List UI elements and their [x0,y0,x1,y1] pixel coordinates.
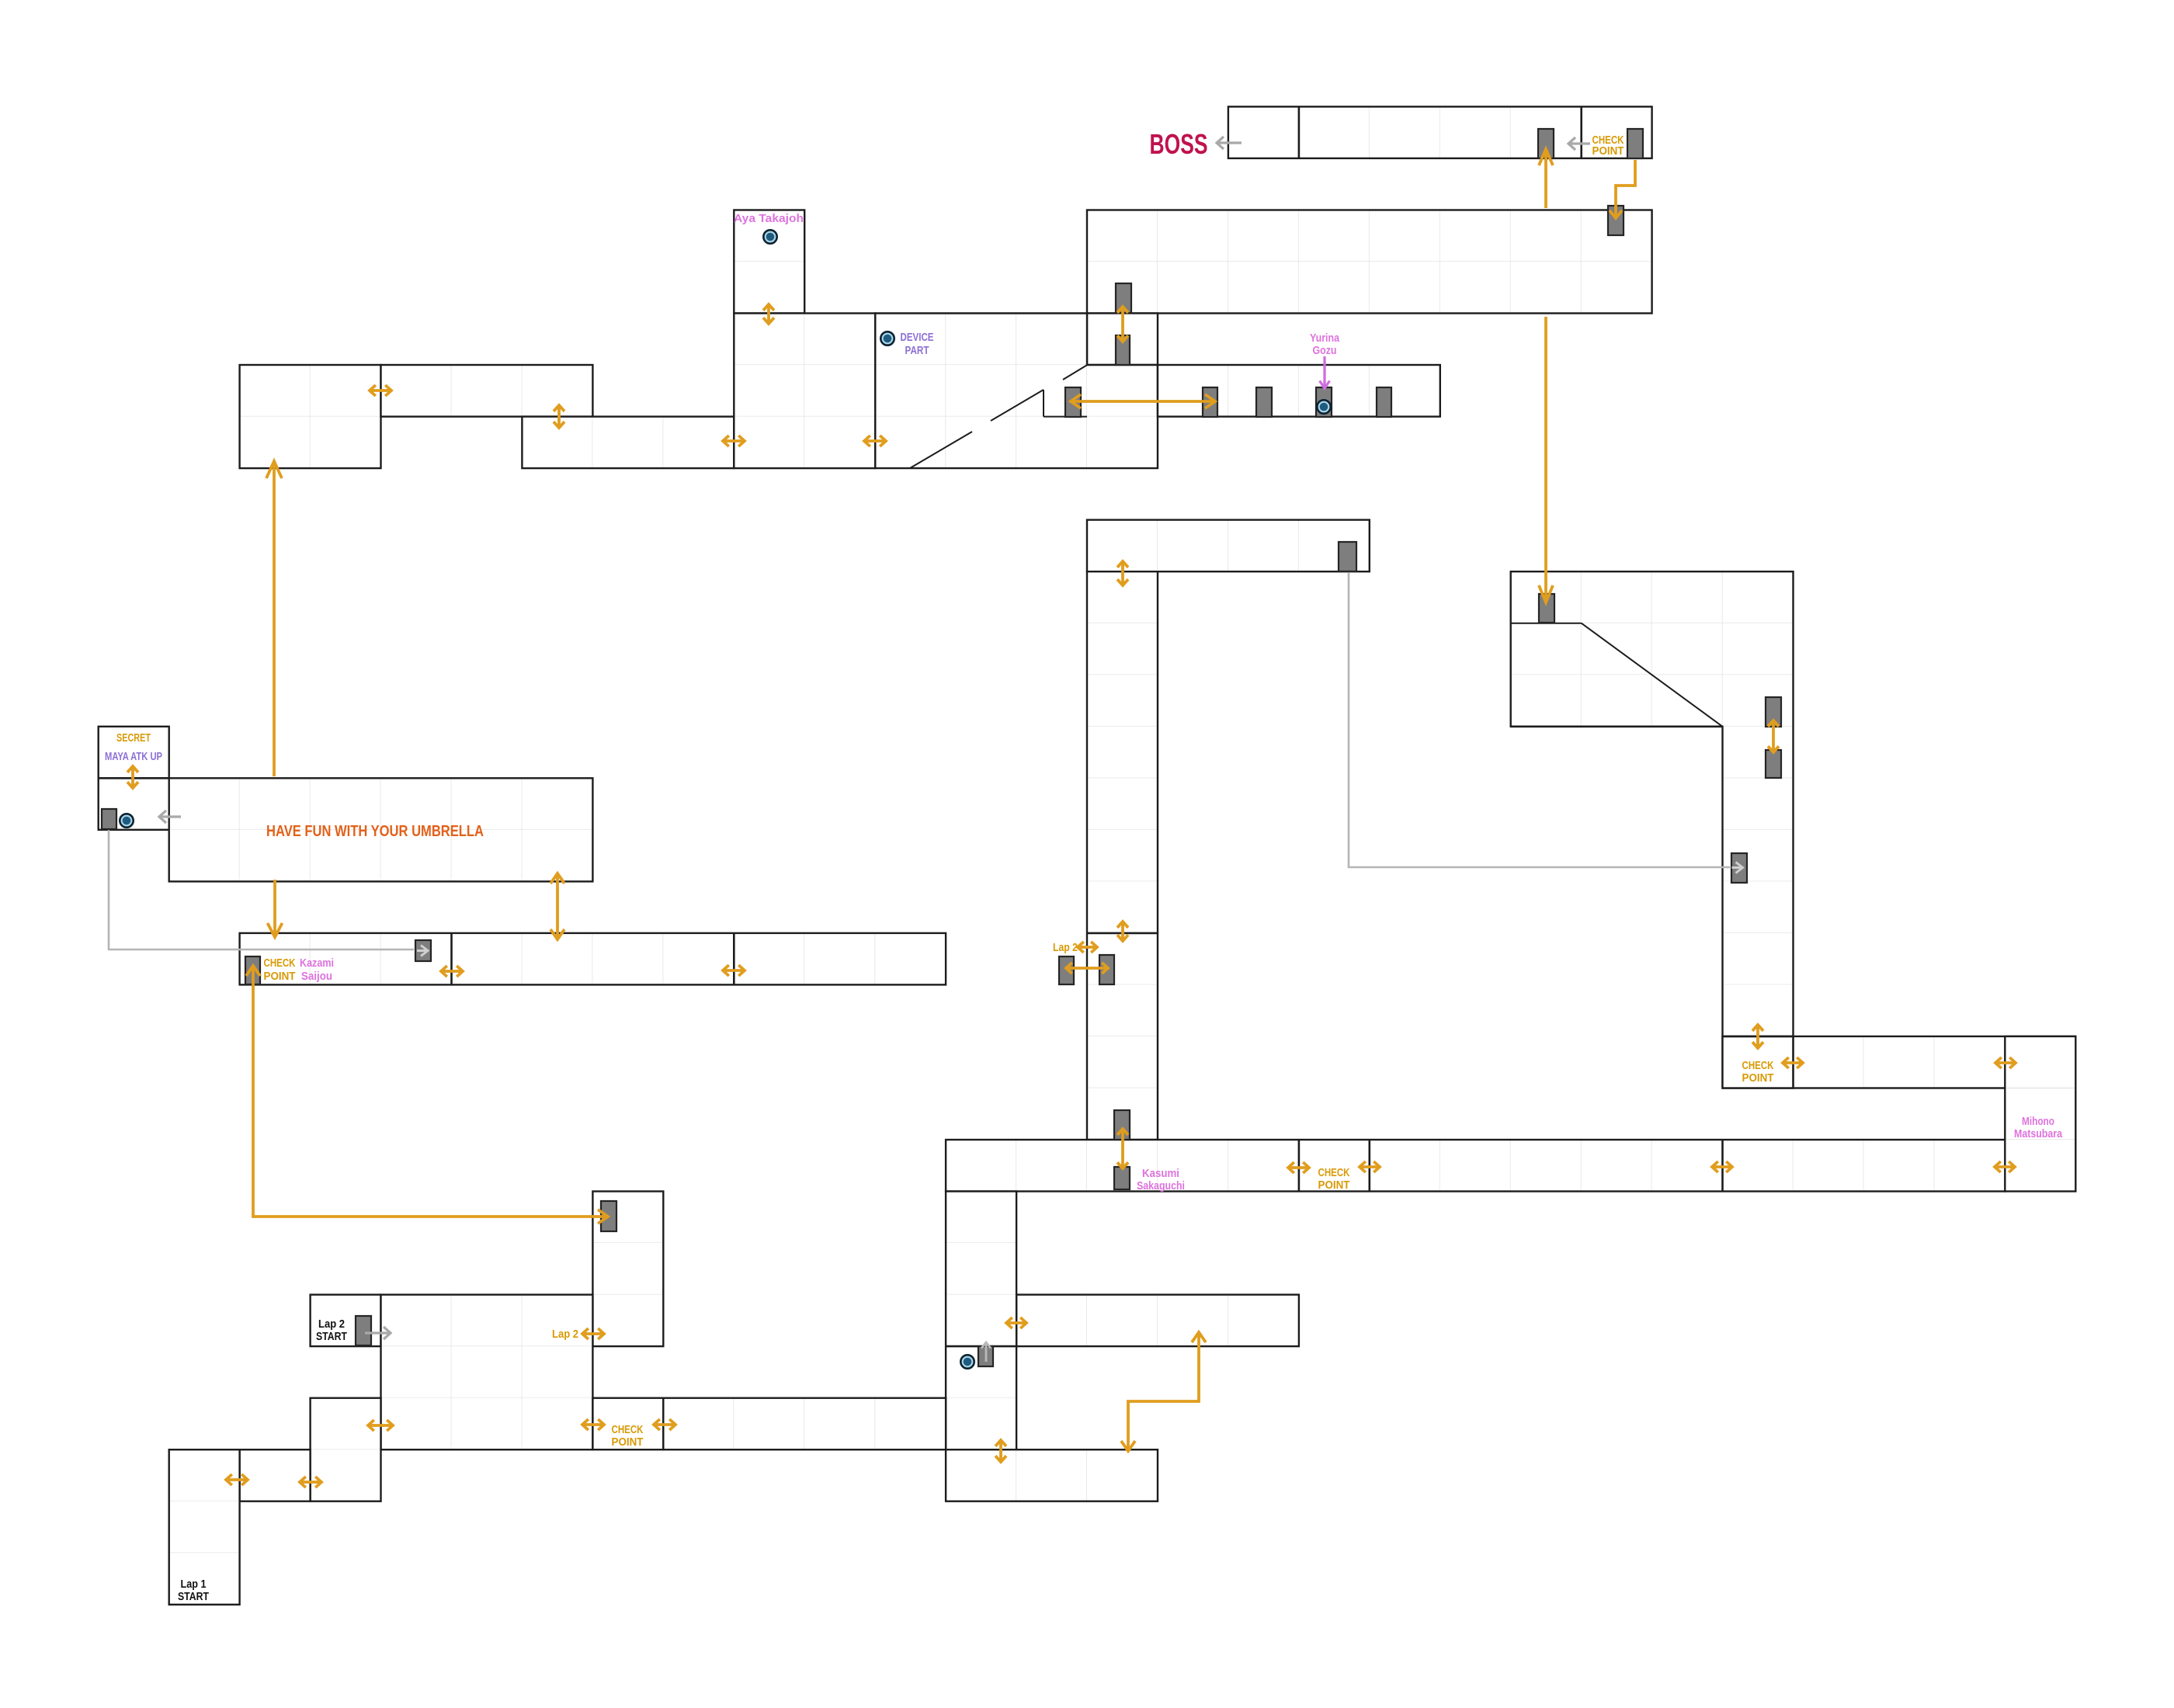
svg-text:START: START [178,1591,209,1603]
svg-text:POINT: POINT [1742,1072,1774,1085]
arrow gray exit boss [1217,137,1242,149]
room Mihono column [2005,1036,2075,1192]
room have-fun hall [169,778,593,881]
arrow two-way west C11 [864,436,886,446]
arrow magenta Yurina label [1320,356,1330,388]
door corridor16 east end [1059,956,1074,984]
room Lap1 column [169,1449,240,1605]
arrow two-way landing doors [1117,307,1128,342]
room checkpoint cell bottom-left [592,1398,663,1450]
wall tower C14 floor [1087,932,1158,935]
svg-text:BOSS: BOSS [1150,128,1208,160]
room west 2x2 [240,365,381,468]
door upper-hall southwest [1116,283,1131,313]
svg-text:POINT: POINT [612,1436,644,1449]
svg-text:Lap 2: Lap 2 [318,1318,345,1331]
room corridor row25 [663,1398,946,1450]
room big 3x3 bottom-left [381,1295,593,1450]
room tower C14 [1087,571,1158,1140]
door tower C23 upper [1766,697,1781,727]
arrow two-way bottom C8 [654,1419,675,1430]
wall corridorA divider C24 [1792,1036,1794,1088]
arrow two-way corridorA C24 [1783,1057,1803,1068]
wall corridorB divider C17 [1298,1140,1301,1192]
arrow two-way tower C14 floor [1117,922,1128,941]
item secret room [120,814,133,827]
room staircase-east with tower and checkpoint cell [1511,571,1794,1088]
door tower C23 gray-arrow [1731,853,1747,883]
room boss-row (top right) [1228,106,1652,158]
stairs east diagonal [1582,623,1723,727]
route gray doorI-to-doorJ [1349,571,1730,867]
arrow two-way tower C12 to hall [1006,1317,1026,1328]
arrow two-way bottom C7 [582,1419,604,1430]
arrow two-way corridor16 C5 [441,966,463,977]
stairs east ledge [1511,623,1582,624]
svg-text:START: START [316,1331,347,1343]
wall boss-row divider [1298,106,1301,158]
room secret column [99,727,169,830]
door tower C23 middle [1766,750,1781,778]
stairs west middle diagonal [991,390,1044,421]
room Yurina hallway [1158,365,1440,417]
svg-text:Kazami: Kazami [300,957,334,970]
svg-text:Gozu: Gozu [1313,345,1337,357]
arrow two-way corridor16 Lap2 [1078,942,1097,953]
room mid hall row23 [1016,1295,1299,1347]
door Yurina 3 [1316,387,1332,417]
wall secret room divider [99,777,169,779]
arrow two-way west hall down [554,405,564,428]
svg-text:Mihono: Mihono [2022,1116,2054,1128]
svg-text:Matsubara: Matsubara [2014,1128,2063,1140]
arrow two-way corridorB C18 [1360,1161,1380,1172]
room tower C7 [592,1192,663,1347]
svg-text:CHECK: CHECK [1742,1060,1774,1072]
open boundary corridorA to Mihono [2006,1086,2074,1090]
room corridor row16 (checkpoint Kazami) [240,933,946,985]
wall corridorB divider C23 [1721,1140,1724,1192]
room corridor row20 (Kasumi) [946,1140,2005,1192]
arrow two-way tower C14 bottom doors [1117,1129,1128,1168]
door upper-hall northeast [1608,206,1624,235]
arrow two-way secret [127,766,138,788]
svg-text:Lap 2: Lap 2 [1053,942,1078,954]
svg-text:Lap 2: Lap 2 [552,1328,578,1341]
arrow two-way tower C23 doors [1768,720,1779,752]
arrow two-way west C4 [370,385,391,396]
arrow one-way down have-fun to corridor [268,880,283,937]
arrow one-way down to stairs-east door [1539,317,1553,602]
door tower C14 mid [1099,955,1114,984]
door stairs-west landing [1065,387,1081,417]
arrow one-way up to boss door [1539,149,1553,208]
arrow gray inside door J [1732,863,1743,873]
arrow gray tower C12 door up [981,1342,991,1362]
door tower C7 top [601,1201,616,1231]
svg-text:Yurina: Yurina [1310,332,1340,345]
door boss-row [1538,129,1554,158]
door Lap2-start [356,1316,371,1345]
room west hall [381,365,593,417]
room tower C12 [946,1192,1016,1450]
svg-text:POINT: POINT [264,970,296,983]
arrow elbow corridor16 to tower C7 door [246,966,608,1224]
arrow two-way west C9 [723,436,745,446]
item device part [880,332,894,345]
arrow two-way corridor16 C9 [723,965,745,976]
svg-text:POINT: POINT [1318,1179,1350,1192]
stairs west landing floor [1044,416,1087,418]
svg-text:SECRET: SECRET [116,732,151,745]
arrow one-way up have-fun to west room [266,461,282,776]
door corridor row20 [1114,1167,1130,1189]
svg-text:Sakaguchi: Sakaguchi [1137,1180,1185,1192]
arrow two-way tower C12 bottom [995,1440,1006,1462]
arrow two-way bottom C2 [226,1474,248,1485]
arrow two-way corridorA to Mihono [1995,1057,2016,1068]
item Yurina door [1317,400,1330,413]
door stairs-east ledge [1539,594,1554,623]
svg-text:CHECK: CHECK [1318,1167,1350,1179]
wall corridor16 divider C5 [450,933,453,985]
svg-text:Kasumi: Kasumi [1142,1168,1179,1180]
svg-text:Saijou: Saijou [301,970,332,983]
arrow elbow mid hall row23 to bottom hall [1121,1332,1206,1451]
arrow two-way corridorB C27 [1995,1161,2015,1172]
arrow two-way Aya to device column [763,304,774,324]
stairs west lower diagonal [910,432,972,468]
door Yurina 2 [1256,387,1272,417]
arrow two-way corridor16 end doors [1066,963,1108,974]
door mid-hall row8 [1339,542,1356,571]
room device-part column [734,314,875,469]
door Yurina 1 [1203,387,1217,417]
door corridor16 checkpoint [245,956,260,984]
wall staircase-east checkpoint floor [1723,1036,1794,1038]
svg-text:Aya Takajoh: Aya Takajoh [734,213,804,225]
svg-text:PART: PART [905,345,929,357]
wall boss-row checkpoint divider [1580,106,1582,158]
svg-text:MAYA ATK UP: MAYA ATK UP [105,751,162,763]
room west lower hall [522,417,734,469]
room small landing above stairs [1087,314,1158,366]
room Aya Takajoh column [734,210,804,314]
arrow two-way have-fun corridor C7 [550,873,564,939]
route gray secret-to-doorF [109,829,414,949]
arrow two-way corridorB C23 [1712,1161,1732,1172]
arrow gray exit checkpoint top [1568,137,1590,150]
svg-text:DEVICE: DEVICE [901,332,934,344]
door landing room [1116,335,1130,365]
arrow gray inside door F [417,946,428,956]
arrow gray secret entry [159,811,181,823]
wall corridorB divider C18 [1369,1140,1371,1192]
room staircase-west (L-shape with stairs) [875,314,1158,469]
arrow two-way stairs landing to Yurina [1071,394,1215,408]
svg-text:HAVE FUN WITH YOUR UMBRELLA: HAVE FUN WITH YOUR UMBRELLA [266,823,484,840]
wall tower C12 floor [946,1345,1016,1348]
wall corridor16 divider C9 [733,933,735,985]
room single bottom [240,1449,311,1501]
arrow two-way bottom C4 [368,1420,393,1431]
stairs west landing wall [1043,390,1044,417]
door corridor16 gray-arrow [415,940,431,961]
stairs west upper diagonal [1063,365,1087,380]
room Lap2 start [311,1295,381,1347]
door tower C14 bottom [1114,1110,1130,1140]
arrow elbow checkpoint down to upper-hall door [1610,160,1635,218]
door secret room [102,809,116,829]
item tower C12 [960,1355,974,1368]
arrow gray Lap2-start exit [365,1327,391,1339]
room upper-hall (second row) [1087,210,1652,314]
svg-text:POINT: POINT [1592,145,1624,158]
svg-text:CHECK: CHECK [264,957,296,970]
svg-text:CHECK: CHECK [612,1424,644,1436]
arrow two-way checkpoint C23 floor [1752,1025,1763,1048]
room corridor row18 east [1723,1036,2076,1088]
item Aya Takajoh [763,230,776,243]
room left column bottom [311,1398,381,1501]
arrow two-way tower C7 Lap2 [582,1328,604,1339]
wall staircase-east bottom [1511,725,1723,727]
svg-text:Lap 1: Lap 1 [181,1578,207,1591]
door tower C12 floor [978,1346,993,1366]
arrow two-way bottom C3 [300,1477,321,1488]
room bottom mid hall row26 [946,1449,1158,1501]
door boss-row checkpoint [1627,129,1643,158]
door Yurina 4 [1377,387,1391,417]
room mid hall row8 [1087,520,1370,572]
arrow two-way mid hall row8 to tower [1117,561,1128,585]
arrow two-way corridorB C17 [1288,1162,1309,1173]
